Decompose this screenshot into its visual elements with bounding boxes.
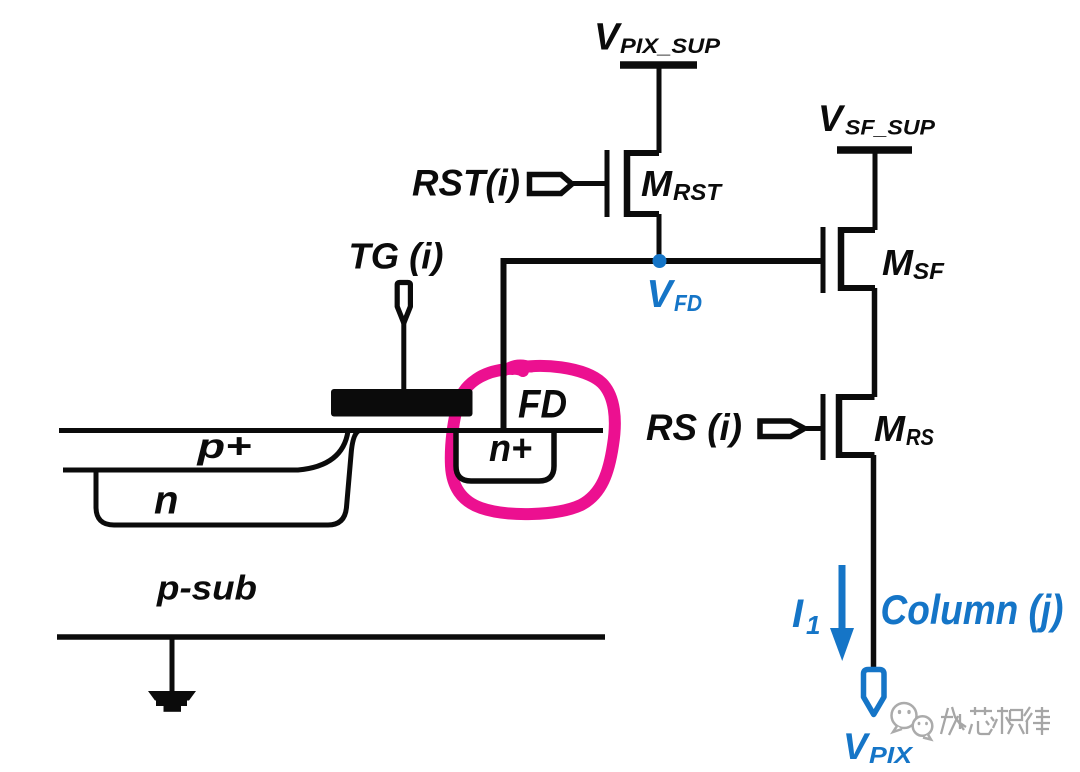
wire TG [401, 323, 406, 391]
pin RS(i) [760, 421, 805, 437]
wire FD horizontal [504, 261, 822, 431]
transistor M_RS [806, 394, 875, 460]
substrate line [57, 634, 605, 640]
svg-text:V: V [594, 17, 622, 59]
svg-text:TG (i): TG (i) [349, 236, 444, 277]
label I1 [792, 592, 820, 640]
svg-text:RST: RST [673, 179, 723, 205]
svg-text:1: 1 [806, 610, 820, 640]
char 3 ji [993, 707, 1024, 734]
label V_PIX [843, 726, 914, 768]
svg-text:RS (i): RS (i) [646, 407, 742, 448]
supply rail V_SF_SUP [837, 150, 912, 230]
svg-text:SF_SUP: SF_SUP [845, 117, 936, 140]
svg-text:Column (j): Column (j) [881, 586, 1064, 633]
svg-text:V: V [843, 726, 871, 767]
FD n+ box [456, 431, 554, 481]
svg-text:n: n [154, 479, 178, 523]
svg-text:V: V [647, 273, 676, 316]
svg-text:n+: n+ [489, 428, 532, 470]
char 1 chu [941, 707, 966, 735]
svg-text:FD: FD [674, 290, 702, 316]
svg-text:RS: RS [906, 424, 935, 450]
probe V_PIX [864, 670, 885, 715]
magenta highlight loop [451, 366, 615, 514]
ground symbol [148, 691, 196, 712]
svg-text:RST(i): RST(i) [412, 163, 520, 204]
node V_FD dot [653, 254, 667, 268]
transistor M_RST [573, 150, 659, 217]
ground wire [170, 637, 175, 692]
watermark logo bubbles [892, 703, 933, 740]
wire column [871, 455, 877, 669]
pin TG [397, 283, 410, 324]
svg-text:M: M [874, 408, 906, 449]
wire M_SF source to M_RS drain [872, 288, 878, 397]
transfer gate bar [331, 389, 473, 417]
supply rail VPIX_SUP [620, 65, 697, 153]
label M_RS [874, 408, 935, 450]
label V_SF_SUP [818, 98, 936, 140]
svg-text:PIX_SUP: PIX_SUP [620, 35, 721, 58]
char 2 xin [969, 707, 994, 734]
svg-text:V: V [818, 98, 846, 139]
label M_RST [641, 163, 723, 205]
svg-text:SF: SF [913, 258, 945, 284]
label V_FD [647, 273, 703, 316]
magenta loop overlap tail [504, 365, 531, 371]
current arrow I1 [830, 565, 854, 661]
n-well outline [96, 431, 359, 526]
pin RST(i) [530, 175, 573, 194]
transistor M_SF [823, 227, 875, 293]
svg-text:M: M [882, 242, 914, 283]
svg-text:I: I [792, 592, 804, 636]
svg-text:p-sub: p-sub [156, 570, 257, 608]
p+ region outline [63, 431, 348, 470]
surface line [59, 428, 603, 433]
watermark text 处芯积律 (drawn strokes) [941, 707, 1050, 735]
label V_PIX_SUP [594, 17, 721, 59]
svg-text:p+: p+ [196, 427, 251, 466]
label M_SF [882, 242, 945, 284]
char 4 lv [1024, 707, 1050, 735]
svg-text:M: M [641, 163, 673, 204]
wire M_RST source down to FD node [657, 214, 662, 261]
svg-text:PIX: PIX [869, 742, 914, 768]
svg-text:FD: FD [518, 383, 567, 427]
